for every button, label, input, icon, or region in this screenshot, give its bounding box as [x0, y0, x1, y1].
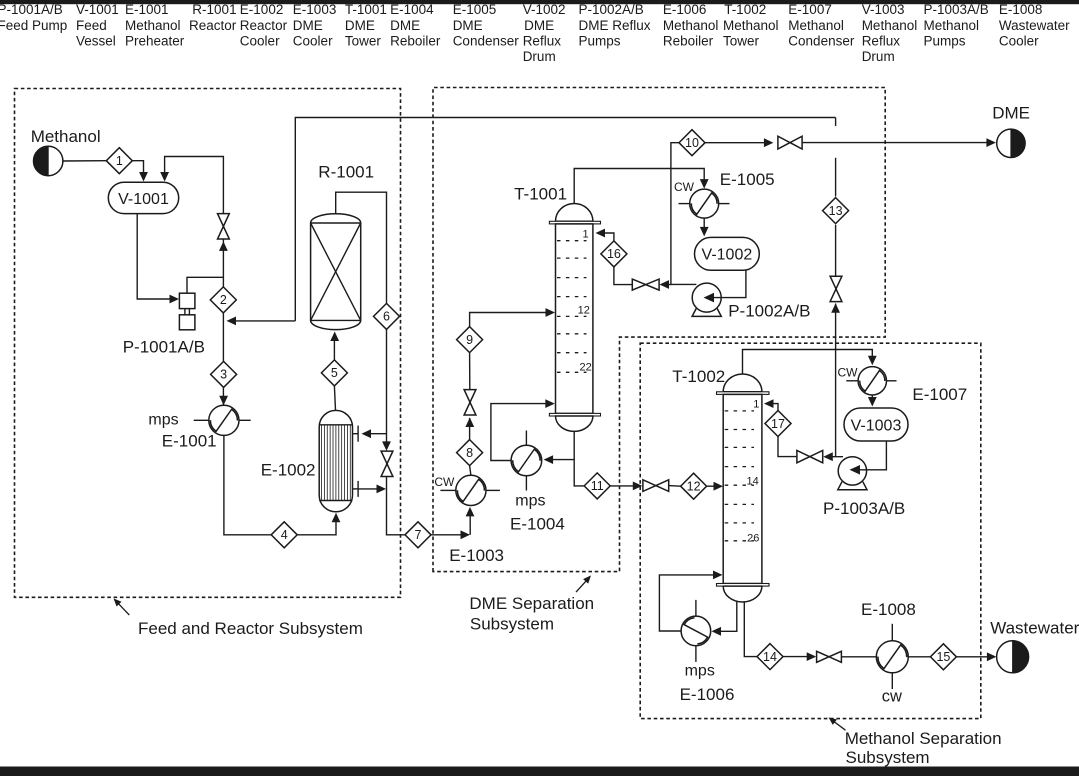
svg-text:Pumps: Pumps [579, 33, 621, 48]
tower T-1002 [717, 374, 770, 602]
vessel V-1001 [108, 182, 178, 213]
heat exchanger E-1004 [511, 431, 542, 491]
wire valve to stream 12 [669, 485, 681, 488]
svg-text:7: 7 [415, 528, 422, 542]
svg-text:DME Separation: DME Separation [469, 594, 594, 613]
E-1003 label [449, 546, 504, 565]
svg-text:4: 4 [281, 528, 288, 542]
stream diamond 9 [457, 327, 483, 353]
valve on T-1002 feed [643, 480, 669, 492]
svg-text:Methanol: Methanol [924, 18, 980, 33]
wire E-1001 to stream 4 [224, 435, 271, 534]
svg-text:1: 1 [116, 154, 123, 168]
wire P-1003 discharge [823, 452, 843, 461]
T-1001 tray number 22 [580, 362, 592, 374]
svg-text:E-1004: E-1004 [390, 2, 434, 17]
mps label at E-1001 [148, 411, 178, 428]
svg-text:Cooler: Cooler [293, 33, 333, 48]
svg-text:mps: mps [148, 411, 178, 428]
wire reboiler draw to E-1004 [544, 455, 575, 464]
CW label at E-1003 [434, 475, 455, 489]
Wastewater label [990, 618, 1079, 637]
svg-text:E-1004: E-1004 [510, 515, 565, 534]
svg-text:Methanol: Methanol [125, 18, 181, 33]
svg-text:V-1001: V-1001 [76, 2, 119, 17]
Methanol Separation Subsystem dashed box [640, 343, 981, 718]
wastewater product circle [997, 641, 1029, 673]
svg-text:P-1003A/B: P-1003A/B [823, 499, 905, 518]
stream diamond 3 [211, 361, 237, 387]
svg-text:Wastewater: Wastewater [999, 18, 1070, 33]
valve on wastewater line [817, 651, 842, 662]
E-1002 top nozzle [353, 426, 359, 442]
T-1002 tray number 1 [753, 398, 759, 410]
P-1001A/B label [123, 337, 205, 356]
svg-text:Methanol: Methanol [31, 127, 101, 146]
wire P-1002 discharge riser to stream 10 [671, 143, 697, 285]
wire V-1003 to P-1003 suction [850, 441, 887, 475]
svg-text:11: 11 [591, 479, 604, 493]
svg-text:DME: DME [345, 18, 375, 33]
svg-text:E-1007: E-1007 [912, 385, 967, 404]
svg-text:V-1002: V-1002 [523, 2, 566, 17]
wire feed circle to stream 1 [63, 160, 106, 162]
svg-text:12: 12 [687, 480, 701, 494]
svg-text:Wastewater: Wastewater [990, 618, 1079, 637]
svg-text:E-1001: E-1001 [125, 2, 169, 17]
svg-text:Condenser: Condenser [788, 33, 855, 48]
wire stream 8 to valve [465, 418, 474, 440]
wire valve to stream 16 to T-1001 reflux [596, 229, 633, 285]
svg-text:Reflux: Reflux [523, 33, 562, 48]
svg-text:Methanol: Methanol [862, 18, 918, 33]
wire stream 14 to valve [783, 652, 816, 661]
control valve on methanol recycle [830, 276, 842, 301]
stream diamond 11 [584, 473, 610, 499]
wire stream 12 to T-1002 [707, 482, 723, 491]
wire stream 7 to E-1003 [431, 507, 474, 539]
svg-text:E-1008: E-1008 [999, 2, 1043, 17]
reactor R-1001 [311, 214, 361, 330]
reflux valve at T-1002 [797, 450, 823, 462]
svg-text:DME Reflux: DME Reflux [579, 18, 651, 33]
R-1001 label [318, 163, 374, 182]
svg-text:14: 14 [747, 476, 759, 488]
wire reflux branch to valve [660, 280, 671, 289]
wire E-1006 return to T-1002 [659, 571, 722, 632]
wire R-1001 outlet to stream 6 line [336, 192, 387, 303]
svg-text:2: 2 [220, 293, 227, 307]
cw label at E-1008 [882, 688, 902, 706]
pump P-1002A/B [692, 283, 721, 316]
svg-text:P-1001A/B: P-1001A/B [123, 337, 205, 356]
svg-text:8: 8 [466, 446, 473, 460]
svg-text:14: 14 [763, 650, 777, 664]
svg-text:R-1001: R-1001 [192, 2, 236, 17]
svg-text:Vessel: Vessel [76, 33, 116, 48]
stream diamond 17 [765, 411, 791, 437]
top black bar [0, 0, 1079, 4]
wire valve to E-1008 [841, 656, 876, 658]
svg-text:E-1002: E-1002 [240, 2, 284, 17]
svg-text:Methanol Separation: Methanol Separation [845, 729, 1002, 748]
wire methanol recycle long line [295, 118, 840, 457]
svg-text:DME: DME [992, 104, 1030, 123]
svg-text:mps: mps [685, 663, 715, 680]
heat exchanger E-1007 [846, 367, 896, 395]
E-1001 label [162, 431, 217, 450]
svg-text:16: 16 [607, 247, 621, 261]
svg-text:P-1003A/B: P-1003A/B [924, 2, 989, 17]
svg-text:mps: mps [515, 492, 545, 509]
svg-text:Preheater: Preheater [125, 33, 185, 48]
E-1007 label [912, 385, 967, 404]
E-1002 label [261, 460, 316, 479]
svg-text:Feed and Reactor Subsystem: Feed and Reactor Subsystem [138, 619, 363, 638]
svg-text:Methanol: Methanol [663, 18, 719, 33]
svg-text:Tower: Tower [723, 33, 760, 48]
wire T-1002 overhead vapour to E-1007 [743, 350, 877, 375]
heat exchanger E-1005 [679, 189, 730, 218]
wire E-1002 top nozzle feed [362, 429, 387, 438]
svg-text:6: 6 [383, 310, 390, 324]
wire E-1007 to V-1003 [868, 395, 877, 407]
svg-text:T-1002: T-1002 [724, 2, 766, 17]
svg-text:V-1002: V-1002 [702, 247, 753, 264]
reactor cooler E-1002 vessel [319, 410, 352, 511]
svg-text:26: 26 [747, 533, 759, 545]
svg-text:17: 17 [771, 417, 785, 431]
mps label at E-1004 [515, 492, 545, 509]
stream diamond 16 [601, 241, 627, 267]
svg-text:Reactor: Reactor [189, 18, 237, 33]
svg-text:Methanol: Methanol [723, 18, 779, 33]
wire T-1002 bottoms to E-1006 [712, 601, 737, 636]
svg-text:Reactor: Reactor [240, 18, 288, 33]
svg-text:E-1003: E-1003 [293, 2, 337, 17]
E-1008 label [861, 600, 916, 619]
wire stream 11 to valve [610, 482, 642, 491]
stream diamond 5 [321, 360, 347, 386]
svg-text:V-1001: V-1001 [118, 191, 169, 208]
E-1002 bottom nozzle [353, 481, 359, 497]
wire stream 1 to V-1001 inlet [132, 161, 148, 182]
P-1003A/B label [823, 499, 905, 518]
svg-text:E-1006: E-1006 [680, 685, 735, 704]
svg-text:Pumps: Pumps [924, 33, 966, 48]
P-1002A/B label [728, 301, 810, 320]
stream diamond 4 [271, 522, 297, 548]
Feed and Reactor Subsystem dashed box [15, 89, 401, 598]
wire V-1001 to P-1001 suction [137, 214, 179, 304]
DME Separation Subsystem label [469, 575, 594, 633]
svg-text:P-1001A/B: P-1001A/B [0, 2, 63, 17]
stream diamond 2 [210, 287, 236, 313]
wire valve to stream 9 [469, 353, 471, 390]
stream diamond 15 [930, 644, 956, 670]
svg-text:T-1001: T-1001 [514, 185, 567, 204]
DME product circle [997, 129, 1025, 157]
svg-text:P-1002A/B: P-1002A/B [728, 301, 810, 320]
wire stream 4 to E-1002 bottom [297, 513, 340, 535]
wire bypass to stream 7 [387, 477, 406, 535]
T-1002 tray number 26 [747, 533, 759, 545]
svg-text:CW: CW [674, 180, 695, 194]
svg-text:Drum: Drum [862, 49, 895, 64]
feed stream circle (methanol) [34, 146, 63, 175]
wire methanol recycle join [227, 317, 296, 326]
Methanol feed label [31, 127, 101, 146]
svg-text:Condenser: Condenser [453, 33, 520, 48]
reflux drum V-1002 [695, 237, 760, 270]
svg-text:E-1007: E-1007 [788, 2, 832, 17]
control valve below stream 9 [464, 390, 476, 415]
wire stream 9 to T-1001 feed [470, 308, 555, 327]
control valve on V-1001 recycle [218, 214, 230, 239]
wire valve to DME product [802, 138, 996, 147]
svg-text:DME: DME [293, 18, 323, 33]
E-1005 label [720, 170, 775, 189]
svg-text:DME: DME [390, 18, 420, 33]
svg-text:3: 3 [220, 368, 227, 382]
stream diamond 14 [757, 644, 783, 670]
wire P-1001 discharge [187, 277, 223, 293]
svg-text:Methanol: Methanol [788, 18, 844, 33]
svg-text:Cooler: Cooler [240, 33, 280, 48]
svg-text:E-1001: E-1001 [162, 431, 217, 450]
CW label at E-1007 [838, 366, 859, 380]
wire pump riser (valve to junction to E-1001) [219, 239, 228, 405]
svg-text:E-1005: E-1005 [453, 2, 497, 17]
svg-text:CW: CW [434, 475, 455, 489]
stream diamond 12 [681, 473, 707, 499]
wire E-1008 to stream 15 [908, 656, 930, 658]
svg-text:T-1002: T-1002 [672, 367, 725, 386]
bottom black bar [0, 767, 1079, 776]
svg-text:5: 5 [331, 366, 338, 380]
svg-text:Feed Pump: Feed Pump [0, 18, 67, 33]
DME product valve [778, 136, 802, 149]
wire T-1002 bottoms to stream 14 [744, 602, 757, 657]
svg-text:Subsystem: Subsystem [470, 615, 554, 634]
Methanol Separation Subsystem label [829, 717, 1002, 767]
Feed and Reactor Subsystem label [114, 598, 363, 638]
wire valve to stream 17 to T-1002 reflux [764, 399, 797, 456]
wire E-1004 return to T-1001 [491, 399, 555, 460]
equipment summary header [0, 2, 1070, 64]
DME Separation Subsystem dashed box (L-shape) [433, 88, 885, 572]
reflux drum V-1003 [844, 408, 908, 441]
wire stream 10 to DME product valve [705, 138, 773, 147]
pump P-1001A/B [179, 293, 195, 330]
svg-text:Feed: Feed [76, 18, 107, 33]
stream diamond 7 [405, 522, 431, 548]
svg-text:cw: cw [882, 688, 902, 706]
svg-text:DME: DME [453, 18, 483, 33]
T-1001 tray number 12 [578, 305, 590, 317]
svg-text:Reboiler: Reboiler [390, 33, 441, 48]
stream diamond 1 [106, 148, 132, 174]
svg-text:P-1002A/B: P-1002A/B [579, 2, 644, 17]
stream diamond 8 [457, 440, 483, 466]
control valve on E-1002 bypass [381, 451, 393, 476]
stream diamond 10 [679, 130, 705, 156]
wire T-1001 overhead vapour to E-1005 [574, 169, 708, 204]
stream diamond 13 [823, 198, 849, 224]
svg-text:Drum: Drum [523, 49, 556, 64]
svg-text:Subsystem: Subsystem [846, 748, 930, 767]
pump P-1003A/B [838, 457, 867, 490]
E-1006 label [680, 685, 735, 704]
heat exchanger E-1001 [194, 405, 251, 435]
svg-text:T-1001: T-1001 [345, 2, 387, 17]
wire V-1002 to P-1002 suction [704, 270, 746, 302]
wire E-1002 top to stream 5 to R-1001 [330, 332, 339, 411]
DME label [992, 104, 1030, 123]
svg-text:R-1001: R-1001 [318, 163, 374, 182]
wire E-1002 bottom nozzle outlet [358, 485, 386, 494]
svg-text:1: 1 [753, 398, 759, 410]
stream diamond 6 [374, 303, 400, 329]
svg-text:10: 10 [685, 136, 699, 150]
wire stream 6 down to E-1002 nozzles and bypass valve [382, 329, 391, 451]
tower T-1001 [549, 204, 600, 432]
wire recycle into V-1001 (from control valve) [160, 157, 223, 214]
svg-text:V-1003: V-1003 [862, 2, 905, 17]
svg-text:E-1003: E-1003 [449, 546, 504, 565]
heat exchanger E-1008 [876, 624, 908, 689]
wire E-1003 to stream 8 [470, 466, 471, 476]
T-1001 tray number 1 [582, 229, 588, 241]
T-1002 label [672, 367, 725, 386]
wire E-1005 to V-1002 [700, 218, 709, 236]
svg-text:Tower: Tower [345, 33, 382, 48]
svg-text:13: 13 [829, 204, 843, 218]
CW label at E-1005 [674, 180, 695, 194]
heat exchanger E-1006 [681, 600, 711, 662]
mps label at E-1006 [685, 663, 715, 680]
reflux valve at T-1001 [632, 279, 659, 290]
svg-text:15: 15 [936, 650, 950, 664]
svg-text:DME: DME [524, 18, 554, 33]
svg-text:Reflux: Reflux [862, 33, 901, 48]
wire T-1001 bottoms [574, 431, 584, 486]
T-1001 label [514, 185, 567, 204]
svg-text:9: 9 [466, 333, 473, 347]
T-1002 tray number 14 [747, 476, 759, 488]
E-1004 label [510, 515, 565, 534]
svg-text:1: 1 [582, 229, 588, 241]
svg-text:E-1005: E-1005 [720, 170, 775, 189]
svg-text:Reboiler: Reboiler [663, 33, 714, 48]
svg-text:12: 12 [578, 305, 590, 317]
heat exchanger E-1003 [440, 475, 500, 505]
svg-text:CW: CW [838, 366, 859, 380]
svg-text:Cooler: Cooler [999, 33, 1039, 48]
wire stream 15 to wastewater [956, 652, 996, 661]
svg-text:E-1008: E-1008 [861, 600, 916, 619]
svg-text:E-1006: E-1006 [663, 2, 707, 17]
svg-text:E-1002: E-1002 [261, 460, 316, 479]
svg-text:V-1003: V-1003 [851, 417, 902, 434]
svg-text:22: 22 [580, 362, 592, 374]
